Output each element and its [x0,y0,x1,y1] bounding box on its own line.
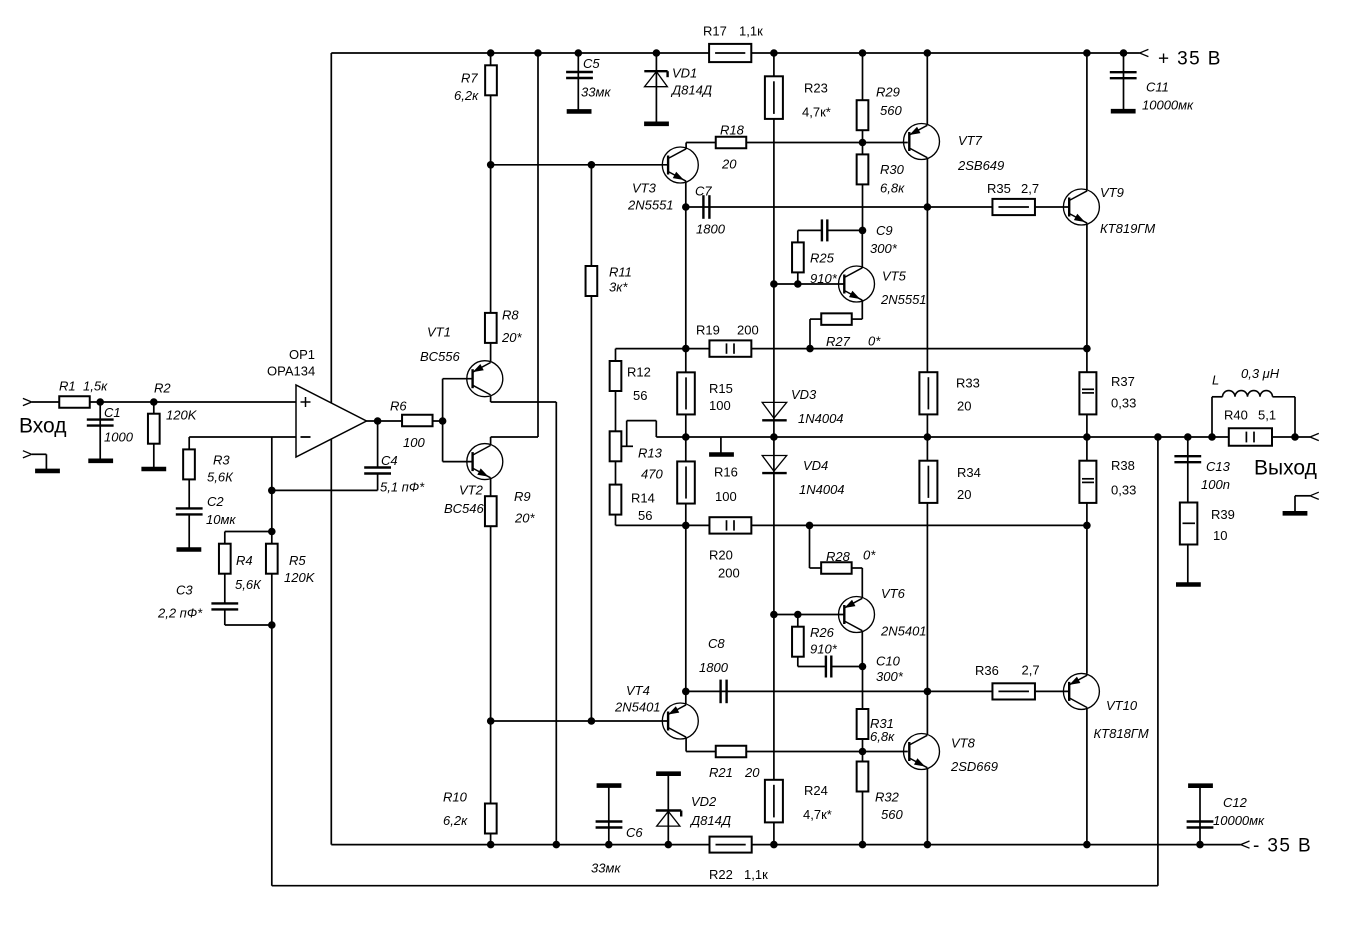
svg-text:R38: R38 [1111,458,1135,473]
wire feedback left column [271,437,273,886]
svg-text:R25: R25 [810,251,835,266]
svg-text:R20: R20 [709,548,733,563]
transistor VT3 [662,147,698,183]
svg-text:33мк: 33мк [591,861,621,876]
svg-text:910*: 910* [810,642,838,657]
junction dot [588,717,596,725]
svg-text:C13: C13 [1206,459,1231,474]
wire R4 column [224,532,226,604]
wire C3 bottom link [224,610,226,626]
junction dot [794,611,802,619]
svg-text:1,1к: 1,1к [744,867,768,882]
wire inverting input line [189,436,296,438]
wire VT7 collector R33 R34 column [926,158,928,691]
junction dot [859,227,867,235]
resistor R11 [586,266,598,296]
svg-text:R30: R30 [880,162,905,177]
svg-text:1800: 1800 [699,660,729,675]
ground input jack 2 [35,469,60,474]
wire R19 line [616,348,1087,350]
capacitor C3 [211,602,238,604]
wire VT5 emitter to R27 [861,300,863,319]
svg-text:33мк: 33мк [581,85,611,100]
svg-text:10мк: 10мк [206,512,236,527]
wire VT4 base line [491,720,668,722]
junction dot [268,621,276,629]
transistor VT8 [904,734,940,770]
svg-text:10000мк: 10000мк [1142,98,1194,113]
wire VD R23 R24 column [773,53,775,845]
junction dot [150,398,158,406]
wire VT9 emitter column [1086,224,1088,674]
transistor VT5 [839,266,875,302]
svg-text:R33: R33 [956,376,980,391]
node input jack 2 terminal [23,451,32,455]
wire VT3 base line [491,164,668,166]
junction dot [553,841,561,849]
resistor R24 [765,780,783,823]
capacitor C9 [821,219,823,241]
junction dot [1291,433,1299,441]
capacitor C12 [1187,820,1214,822]
wire mid rail ground stub [720,437,722,454]
junction dot [487,841,495,849]
svg-text:300*: 300* [876,669,904,684]
junction dot [924,49,932,57]
capacitor C7 [702,195,704,219]
svg-text:- 35 В: - 35 В [1253,836,1312,857]
wire op-amp supply frame line [330,53,332,845]
junction dot [534,49,542,57]
svg-text:C6: C6 [626,825,643,840]
wire C1 stem [99,402,101,461]
junction dot [268,487,276,495]
svg-text:120K: 120K [284,570,316,585]
svg-text:5,1 пФ*: 5,1 пФ* [380,480,425,495]
resistor R9 [485,496,497,526]
capacitor C4 [364,466,391,468]
node output jack 2 terminal [1310,492,1319,496]
ground R2 [141,467,166,472]
wire C2 to ground [188,514,190,549]
svg-text:100: 100 [403,435,425,450]
svg-text:1000: 1000 [104,430,134,445]
junction dot [1120,49,1128,57]
wire VT7 emitter [926,53,928,125]
svg-text:R21: R21 [709,765,733,780]
junction dot [653,49,661,57]
wire VT4 collector to R21 [685,738,687,752]
svg-text:2N5551: 2N5551 [880,292,927,307]
wire R26 to C10 [797,657,799,667]
svg-text:R27: R27 [826,334,851,349]
svg-text:C5: C5 [583,56,600,71]
svg-text:L: L [1212,373,1219,388]
svg-text:R9: R9 [514,489,531,504]
svg-text:VT6: VT6 [881,586,906,601]
svg-text:VT3: VT3 [632,181,657,196]
wire R4 R5 top node [225,531,272,533]
wire input jack 2 stub [32,453,47,455]
junction dot [770,433,778,441]
svg-text:1N4004: 1N4004 [799,482,845,497]
svg-text:C12: C12 [1223,795,1248,810]
resistor R8 [485,313,497,343]
ground C11 [1111,109,1136,114]
svg-text:VT1: VT1 [427,325,451,340]
wire R28 riser [809,525,811,568]
junction dot [924,688,932,696]
svg-text:100: 100 [709,398,731,413]
resistor R12 [610,361,622,391]
wire R27 to R19 line [810,318,822,320]
junction dot [1208,433,1216,441]
svg-text:6,2к: 6,2к [454,88,479,103]
svg-text:R13: R13 [638,446,663,461]
junction dot [859,49,867,57]
svg-text:R39: R39 [1211,507,1235,522]
svg-text:2N5401: 2N5401 [880,624,927,639]
junction dot [1083,522,1091,530]
wire R29 R30 column [862,53,864,230]
resistor R6 [402,415,433,427]
ground C5 [567,109,592,114]
svg-text:R24: R24 [804,783,828,798]
svg-text:R16: R16 [714,465,738,480]
svg-text:R35: R35 [987,181,1011,196]
wire VT2 base [443,461,473,463]
svg-text:R19: R19 [696,323,720,338]
svg-text:VT8: VT8 [951,736,976,751]
svg-text:Д814Д: Д814Д [670,83,712,98]
wire VT1 base [443,378,473,380]
transistor VT10 [1063,673,1099,709]
inductor L [1223,391,1273,397]
junction dot [924,841,932,849]
wire C13 R39 column [1187,437,1189,585]
wire C12 stem [1199,786,1201,845]
junction dot [1083,49,1091,57]
svg-text:BC556: BC556 [420,349,461,364]
svg-text:5,6К: 5,6К [235,577,262,592]
svg-text:100: 100 [715,489,737,504]
svg-text:BC546: BC546 [444,501,485,516]
svg-text:3к*: 3к* [609,280,628,295]
svg-text:56: 56 [638,508,652,523]
junction dot [374,417,382,425]
wire output jack 2 [1295,495,1310,497]
junction dot [806,522,814,530]
resistor R2 [148,414,160,444]
wire VT6 base line [774,614,844,616]
resistor R14 [610,485,622,515]
wire op-amp output [367,420,443,422]
svg-text:R37: R37 [1111,374,1135,389]
svg-text:Выход: Выход [1254,457,1317,480]
wire R3 column [188,437,190,508]
capacitor C13 [1174,455,1201,457]
ground C6 [597,783,622,788]
svg-text:VD1: VD1 [672,66,697,81]
svg-text:VD3: VD3 [791,387,817,402]
capacitor C8 [719,680,721,704]
svg-text:R18: R18 [720,123,745,138]
resistor R19 [709,340,751,356]
junction dot [859,748,867,756]
svg-text:10: 10 [1213,528,1227,543]
svg-text:C8: C8 [708,636,725,651]
svg-text:5,6К: 5,6К [207,470,234,485]
svg-text:20*: 20* [514,511,535,526]
svg-text:2SB649: 2SB649 [957,158,1004,173]
junction dot [96,398,104,406]
resistor R1 [59,396,90,408]
svg-text:120K: 120K [166,408,198,423]
wire VD1 stem [655,53,657,124]
wire VT9 collector [1086,53,1088,191]
svg-text:КТ819ГМ: КТ819ГМ [1100,221,1155,236]
svg-text:R32: R32 [875,790,900,805]
svg-text:20: 20 [957,487,971,502]
svg-text:VD4: VD4 [803,458,828,473]
junction dot [575,49,583,57]
svg-text:R14: R14 [631,491,655,506]
capacitor C1 [87,418,114,420]
transistor VT4 [662,703,698,739]
junction dot [682,345,690,353]
transistor VT6 [839,597,875,633]
resistor R36 [992,683,1034,699]
junction dot [1083,841,1091,849]
wire output mid rail [656,436,1310,438]
svg-text:300*: 300* [870,241,898,256]
ground C1 [88,458,113,463]
resistor R27 [821,313,852,325]
svg-text:R40: R40 [1224,408,1248,423]
junction dot [268,528,276,536]
junction dot [859,841,867,849]
resistor R7 [485,65,497,95]
wire C4 stem upper [377,421,379,467]
wire R28 to VT6 [852,567,862,569]
svg-text:0,3 μH: 0,3 μH [1241,366,1280,381]
wire C6 stem [608,786,610,845]
wire R12 R13 R14 column [615,349,617,526]
resistor R4 [219,544,231,574]
svg-text:4,7к*: 4,7к* [802,105,831,120]
wire R20 line [616,524,1087,526]
svg-text:2,7: 2,7 [1021,181,1039,196]
node -35V terminal [1241,841,1250,845]
junction dot [605,841,613,849]
svg-text:R10: R10 [443,790,468,805]
resistor R13 [610,431,622,461]
junction dot [806,345,814,353]
junction dot [1083,345,1091,353]
wire VT1 emitter R8 R7 column [490,53,492,362]
wire VT2 collector run [490,437,492,445]
svg-text:OPA134: OPA134 [267,364,315,379]
svg-text:1N4004: 1N4004 [798,411,844,426]
capacitor C11 [1110,71,1137,73]
resistor R26 [792,627,804,657]
svg-text:20: 20 [721,157,737,172]
transistor VT1 [467,361,503,397]
wire C5 stem [577,53,579,111]
junction dot [665,841,673,849]
svg-text:200: 200 [737,323,759,338]
wire R2 column [153,402,155,469]
wire R11 column [590,165,592,721]
svg-text:4,7к*: 4,7к* [803,807,832,822]
svg-text:0*: 0* [868,334,881,349]
capacitor C6 [596,820,623,822]
junction dot [439,417,447,425]
junction dot [682,433,690,441]
wire C11 stem [1123,53,1125,111]
wire C8 R36 line [686,690,1069,692]
svg-text:Д814Д: Д814Д [689,813,731,828]
junction dot [770,841,778,849]
svg-text:R8: R8 [502,308,519,323]
svg-text:R15: R15 [709,381,733,396]
svg-text:C11: C11 [1146,80,1169,95]
svg-text:470: 470 [641,467,663,482]
wire R13 wiper [622,445,633,447]
svg-text:2SD669: 2SD669 [950,759,998,774]
wire VD2 stem [667,774,669,845]
node input terminal [23,398,32,402]
resistor R5 [266,544,278,574]
resistor R31 [857,709,869,739]
resistor R22 [710,837,752,853]
svg-text:20*: 20* [501,330,522,345]
resistor R33 [919,372,937,414]
svg-text:2N5401: 2N5401 [614,700,661,715]
svg-text:5,1: 5,1 [1258,408,1276,423]
wire VT5 collector [861,230,863,268]
svg-text:OP1: OP1 [289,347,315,362]
junction dot [682,203,690,211]
wire VT10 collector [1086,709,1088,845]
wire R25 link [797,273,799,284]
resistor R39 [1180,503,1198,545]
wire C4 branch horizontal [272,489,378,491]
svg-text:C10: C10 [876,654,901,669]
junction dot [770,49,778,57]
svg-text:R34: R34 [957,465,981,480]
svg-text:R26: R26 [810,625,835,640]
ground C2 [177,547,202,552]
junction dot [770,280,778,288]
resistor R30 [857,154,869,184]
svg-text:R22: R22 [709,867,733,882]
svg-text:6,2к: 6,2к [443,813,468,828]
resistor R28 [821,562,852,574]
resistor R18 [716,137,747,149]
svg-text:КТ818ГМ: КТ818ГМ [1094,726,1149,741]
wire feedback riser to output [1157,437,1159,886]
diode VD3 [762,402,787,418]
svg-text:100n: 100n [1201,477,1230,492]
svg-text:VT9: VT9 [1100,185,1124,200]
ground C12 [1188,783,1213,788]
svg-text:R6: R6 [390,399,407,414]
resistor R20 [709,517,751,533]
wire VT5 base line [774,283,844,285]
ground VD2 [656,771,681,776]
resistor R21 [716,746,747,758]
ground output jack 2 [1283,511,1308,516]
wire VT8 collector [926,691,928,734]
svg-text:1,1к: 1,1к [739,24,763,39]
resistor R35 [992,199,1034,215]
svg-text:C2: C2 [207,494,224,509]
capacitor C5 [566,71,593,73]
svg-text:VT2: VT2 [459,483,484,498]
capacitor C2 [176,507,203,509]
junction dot [924,433,932,441]
transistor VT7 [904,124,940,160]
junction dot [487,161,495,169]
svg-text:VT4: VT4 [626,683,650,698]
transistor VT2 [467,444,503,480]
junction dot [682,688,690,696]
wire top +35V rail [331,52,1139,54]
wire VT3 emitter column [685,182,687,704]
svg-text:C9: C9 [876,223,893,238]
wire VT1 VT2 base column [442,379,444,462]
diode VD4 [762,456,787,472]
junction dot [682,522,690,530]
resistor R34 [919,461,937,503]
svg-text:560: 560 [880,103,902,118]
svg-text:+ 35 В: + 35 В [1158,49,1222,70]
svg-text:10000мк: 10000мк [1213,813,1265,828]
junction dot [1083,433,1091,441]
svg-text:2,7: 2,7 [1022,663,1040,678]
svg-text:R4: R4 [236,553,253,568]
resistor R23 [765,76,783,119]
svg-text:0,33: 0,33 [1111,483,1136,498]
ground VD1 [644,122,669,127]
junction dot [859,663,867,671]
svg-text:VT10: VT10 [1106,698,1138,713]
junction dot [924,203,932,211]
junction dot [487,717,495,725]
wire C4 stem lower [377,474,379,491]
resistor R38 [1079,461,1096,503]
wire L R40 left riser [1211,397,1213,437]
resistor R16 [677,461,695,503]
resistor R40 [1229,428,1272,446]
svg-text:6,8к: 6,8к [880,181,905,196]
svg-text:0*: 0* [863,548,876,563]
svg-text:1,5к: 1,5к [83,379,108,394]
capacitor C10 [825,656,827,678]
svg-text:R36: R36 [975,663,999,678]
resistor R15 [677,372,695,414]
junction dot [770,611,778,619]
svg-text:56: 56 [633,388,647,403]
svg-text:C7: C7 [695,184,712,199]
wire VT6 collector [861,631,863,667]
transistor VT9 [1063,189,1099,225]
wire R25 to C9 [797,230,799,242]
junction dot [487,49,495,57]
svg-text:VT7: VT7 [958,133,983,148]
svg-text:910*: 910* [810,271,838,286]
